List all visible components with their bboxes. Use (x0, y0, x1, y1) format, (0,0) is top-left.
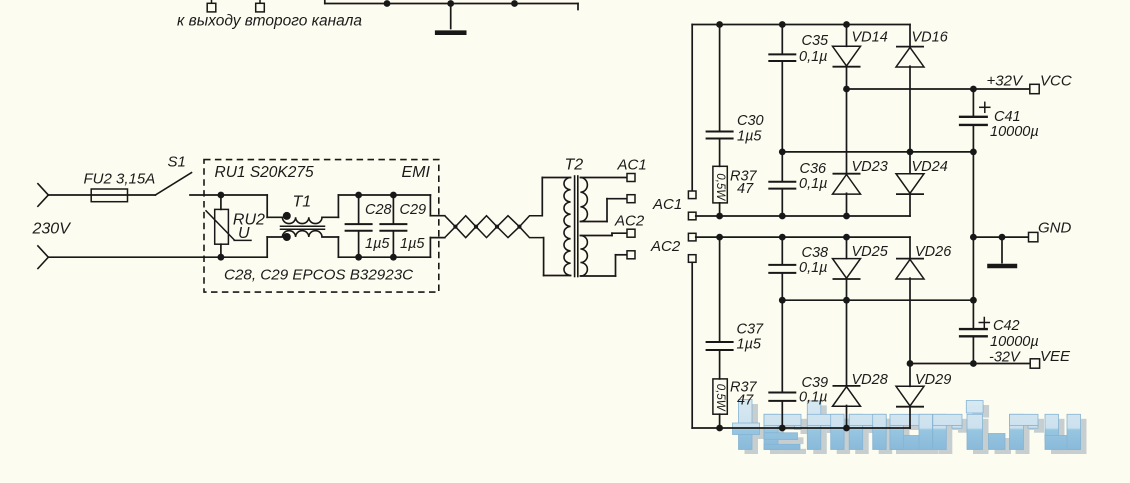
capacitor C41 (electrolytic) (972, 89, 974, 116)
svg-text:47: 47 (737, 393, 754, 409)
svg-text:T2: T2 (565, 157, 584, 174)
svg-text:C37: C37 (737, 322, 765, 338)
node: twisted pair crossing dots (453, 225, 457, 229)
switch S1 blade (155, 173, 191, 195)
node: C28 dots (355, 192, 362, 199)
T1 core bars (281, 225, 325, 227)
svg-text:VD28: VD28 (852, 372, 888, 388)
T2 secondary connector squares (627, 174, 635, 182)
wire: AC1 top rail (692, 24, 910, 26)
connector square VEE (1030, 359, 1039, 368)
svg-text:U: U (238, 225, 250, 242)
resistor R37 (top) (713, 166, 727, 203)
svg-text:1µ5: 1µ5 (737, 129, 762, 145)
diode VD25 (846, 237, 848, 259)
T2 secondary winding AC2 (580, 236, 587, 277)
svg-text:1µ5: 1µ5 (400, 236, 425, 252)
capacitor C30 (719, 25, 721, 131)
svg-text:GND: GND (1038, 220, 1072, 237)
svg-text:T1: T1 (293, 194, 312, 211)
C41 plus sign (980, 106, 990, 108)
svg-text:+32V: +32V (987, 73, 1024, 90)
capacitor C36 (768, 181, 796, 183)
connector square J-b (to second channel) (259, 0, 261, 3)
wire: T1 top to C28/C29 (322, 216, 338, 218)
choke T1 winding bottom (282, 231, 322, 237)
svg-text:VD23: VD23 (852, 159, 888, 175)
connector plug: line input L (38, 184, 48, 195)
wire: GND mid rail (top bridge) (782, 151, 973, 153)
connector plug: line input N (38, 246, 48, 257)
svg-text:0,1µ: 0,1µ (799, 390, 828, 406)
svg-text:C35: C35 (802, 33, 830, 49)
varistor RU2 (220, 195, 222, 209)
svg-text:C42: C42 (993, 318, 1020, 334)
svg-text:VD14: VD14 (852, 30, 888, 46)
wire: left vertical to terminal s1 (691, 25, 693, 191)
wire: GND stub rail (973, 236, 1028, 238)
svg-text:VD16: VD16 (912, 30, 949, 46)
capacitor C35 (781, 25, 783, 54)
wire: secondary AC1 taps (580, 177, 627, 179)
T1 phase dot top (283, 212, 291, 220)
svg-text:RU1 S20K275: RU1 S20K275 (215, 164, 314, 181)
wire: switch to EMI box (190, 194, 221, 196)
capacitor C39 (781, 300, 783, 391)
svg-text:0,1µ: 0,1µ (799, 176, 828, 192)
svg-text:10000µ: 10000µ (990, 124, 1039, 140)
connector square s4 (688, 255, 696, 263)
svg-text:C28: C28 (365, 202, 392, 218)
svg-text:C36: C36 (800, 161, 828, 177)
wire: top rail of second channel (324, 0, 326, 4)
svg-text:C29: C29 (400, 202, 427, 218)
ground symbol (top) (450, 4, 452, 29)
wire: AC2 bottom rail (692, 427, 910, 429)
capacitor C38 (781, 237, 783, 264)
node: RU2 junction dots (218, 192, 225, 199)
wire: +32V rail (847, 88, 1030, 90)
wire: s4 down to bottom rail (691, 262, 693, 428)
diode VD28 (846, 300, 848, 386)
connector square J-a (to second channel) (211, 0, 213, 3)
wire: GND mid rail (bottom bridge) (782, 299, 973, 301)
svg-text:C28, C29 EPCOS B32923C: C28, C29 EPCOS B32923C (224, 267, 414, 284)
svg-text:AC2: AC2 (614, 213, 645, 230)
watermark tehnari.ru (739, 404, 1087, 454)
diode VD29 (909, 364, 911, 387)
svg-text:S1: S1 (168, 154, 186, 171)
wire: bottom input to EMI box (48, 256, 221, 258)
svg-text:C38: C38 (802, 245, 829, 261)
diode VD14 (846, 25, 848, 47)
svg-text:VCC: VCC (1040, 73, 1072, 90)
svg-text:1µ5: 1µ5 (737, 337, 762, 353)
diode VD24 (909, 152, 911, 174)
T2 core (574, 176, 576, 277)
fuse FU2 3,15A (91, 189, 127, 202)
capacitor C42 (electrolytic) (972, 300, 974, 328)
T1 phase dot bottom (283, 233, 291, 241)
svg-text:0,1µ: 0,1µ (799, 260, 828, 276)
svg-text:0,5W: 0,5W (714, 384, 726, 412)
svg-text:C41: C41 (994, 109, 1021, 125)
svg-text:AC2: AC2 (650, 238, 681, 255)
diode VD26 (909, 237, 911, 259)
transformer T2 primary bracket (541, 178, 543, 216)
node: C29 dots (390, 192, 397, 199)
wire: T1 bottom to C28/C29 bottom (322, 236, 338, 238)
svg-text:FU2 3,15A: FU2 3,15A (84, 171, 156, 188)
twisted pair wires (445, 216, 543, 238)
choke T1 winding top (282, 217, 322, 223)
connector square GND (1029, 232, 1038, 241)
svg-text:VD24: VD24 (912, 159, 948, 175)
wire: bottom wire to T1 (221, 256, 267, 258)
svg-text:EMI: EMI (402, 164, 431, 181)
wire: AC1 bottom rail (696, 215, 910, 217)
wire: EMI box outputs to twisted pair (429, 195, 431, 216)
svg-text:0,5W: 0,5W (714, 173, 726, 201)
EMI filter dashed box (204, 160, 439, 293)
svg-text:230V: 230V (32, 221, 72, 238)
diode VD23 (833, 173, 861, 175)
connector square s2 (AC1) (688, 212, 696, 220)
svg-text:VEE: VEE (1040, 348, 1071, 365)
C42 plus sign (979, 322, 989, 324)
svg-text:1µ5: 1µ5 (365, 236, 390, 252)
node: junction dots on top rail (384, 0, 391, 7)
capacitor C29 (392, 195, 394, 223)
wire: secondary AC2 taps (580, 235, 612, 237)
capacitor C37 (719, 237, 721, 341)
wire: GND vertical line (972, 152, 974, 300)
svg-text:VD29: VD29 (915, 372, 951, 388)
svg-text:AC1: AC1 (652, 196, 682, 213)
svg-text:AC1: AC1 (617, 157, 647, 174)
diode VD16 (909, 25, 911, 47)
wire: AC2 top rail (696, 236, 910, 238)
connector square VCC (1030, 84, 1039, 93)
wire: -32V rail (910, 363, 1030, 365)
svg-text:C30: C30 (737, 113, 764, 129)
connector square s3 (AC2) (688, 233, 696, 241)
svg-text:0,1µ: 0,1µ (799, 49, 828, 65)
svg-text:47: 47 (737, 181, 754, 197)
svg-text:VD26: VD26 (915, 244, 952, 260)
T2 primary winding (564, 178, 571, 276)
capacitor C28 (358, 195, 360, 223)
T2 secondary winding AC1 (580, 178, 587, 222)
ground symbol (GND) (1001, 237, 1003, 263)
wire: top input to fuse and switch (48, 194, 155, 196)
wire: top wire to T1 (221, 194, 267, 196)
connector square s1 (688, 191, 696, 199)
svg-text:-32V: -32V (989, 350, 1021, 366)
svg-text:10000µ: 10000µ (990, 334, 1039, 350)
svg-text:VD25: VD25 (852, 244, 889, 260)
resistor R37 (bottom) (713, 379, 727, 414)
svg-text:к выходу второго канала: к выходу второго канала (177, 13, 362, 30)
